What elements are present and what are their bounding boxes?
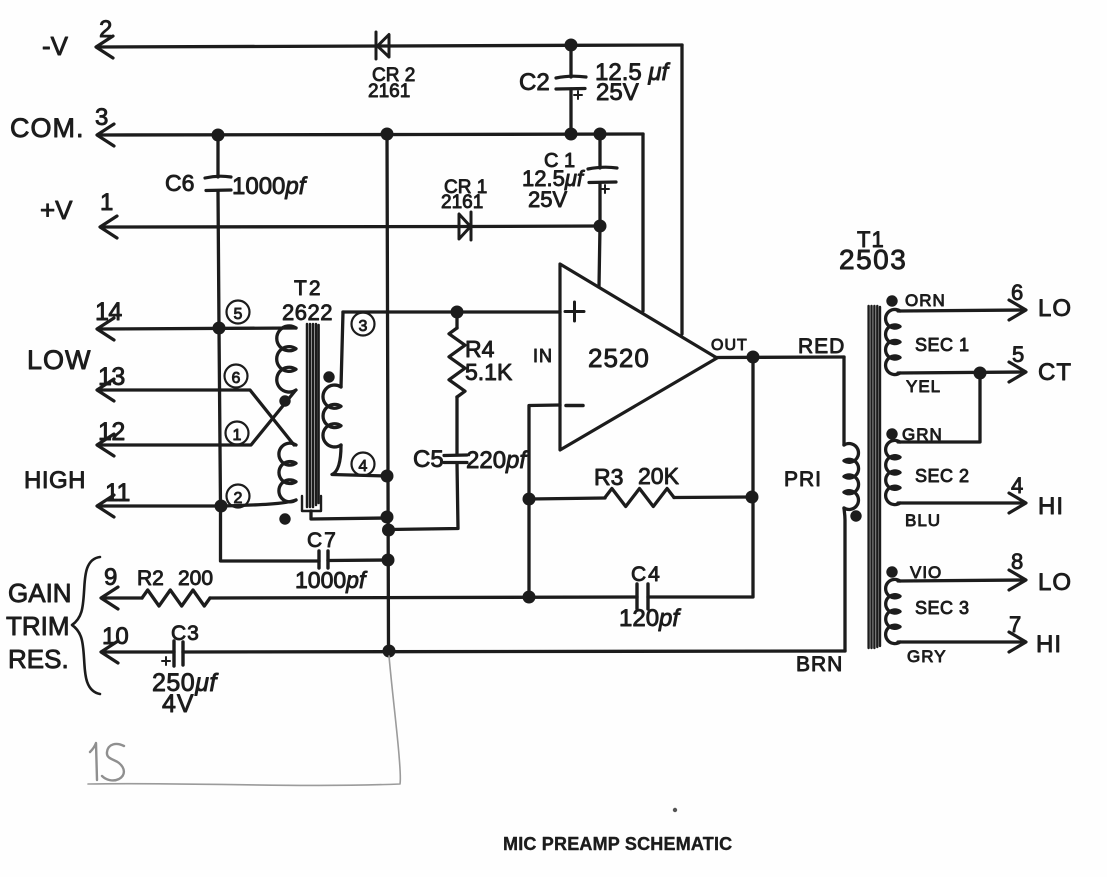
capacitor C1 lead top	[598, 134, 601, 168]
svg-text:3: 3	[95, 104, 108, 131]
svg-text:RED: RED	[798, 335, 845, 358]
svg-text:YEL: YEL	[906, 377, 941, 396]
capacitor C6 lead top	[216, 135, 219, 177]
wire C7 to main vertical	[328, 558, 388, 562]
T2 phasing dot secondary	[323, 371, 334, 382]
wire COM supply drop to op-amp	[641, 134, 644, 311]
svg-text:25V: 25V	[596, 79, 639, 106]
junction dots (solder points)	[212, 39, 987, 658]
wire lead ORN	[898, 310, 1022, 311]
svg-text:2161: 2161	[441, 192, 483, 213]
svg-text:C3: C3	[171, 622, 200, 645]
svg-text:MIC PREAMP SCHEMATIC: MIC PREAMP SCHEMATIC	[503, 834, 732, 854]
capacitor C1 lead bottom	[598, 183, 601, 226]
svg-text:10: 10	[102, 623, 129, 650]
wire BRN riser to T1 primary	[844, 508, 845, 651]
wire RED drop to T1 primary	[842, 357, 845, 445]
capacitor C4 120pf	[637, 584, 648, 609]
svg-text:4: 4	[359, 458, 368, 475]
T2 phasing dot lower	[279, 513, 290, 524]
T2 primary winding lower (pins 1-2)	[279, 443, 296, 502]
svg-text:-V: -V	[42, 31, 69, 61]
terminal arrow pin 5	[1009, 362, 1026, 382]
svg-text:GRY: GRY	[907, 647, 947, 666]
wire pin 12 crossover to T2 pin 6	[99, 391, 295, 445]
svg-text:LO: LO	[1038, 569, 1072, 596]
C1 polarity plus	[601, 185, 609, 193]
T2 terminal 6	[225, 365, 248, 388]
T2 terminal 3	[352, 313, 375, 336]
wire shield to ground bus	[311, 511, 387, 519]
resistor R3 20K	[605, 489, 674, 507]
wire R3 right lead	[674, 495, 752, 499]
wire pin 9 to R2	[103, 596, 142, 599]
wire lead GRY	[898, 640, 1022, 643]
resistor R4 lead bottom to C5	[455, 397, 458, 455]
svg-text:20K: 20K	[638, 463, 680, 489]
svg-text:4V: 4V	[162, 690, 195, 718]
svg-text:R2: R2	[137, 567, 164, 590]
wire pin 14 to T2 winding	[99, 328, 296, 329]
svg-text:1: 1	[233, 427, 242, 444]
terminal arrow pin 7	[1009, 632, 1026, 652]
wire +V rail left segment	[102, 225, 471, 229]
T1 phasing dot SEC 3	[886, 566, 897, 577]
svg-text:RES.: RES.	[8, 644, 69, 674]
svg-text:LO: LO	[1038, 295, 1072, 322]
capacitor C5 220pf	[444, 455, 467, 463]
T1 core	[869, 306, 880, 648]
svg-text:3: 3	[359, 318, 368, 335]
svg-text:IN: IN	[533, 346, 553, 366]
T1 phasing dot SEC 2	[886, 428, 897, 439]
wire R2 to C4 (gain line)	[210, 597, 637, 598]
wire C3 to BRN corner	[183, 651, 845, 652]
svg-text:1: 1	[100, 189, 113, 216]
T2 terminal 2	[227, 485, 250, 508]
terminal arrow pin 2	[96, 36, 113, 58]
wire -V supply drop to op-amp	[680, 45, 683, 334]
terminal arrow pin 6	[1009, 300, 1026, 320]
svg-text:LOW: LOW	[27, 345, 92, 375]
svg-text:1000pf: 1000pf	[295, 567, 368, 593]
wire main vertical (COM to pin10 line)	[387, 134, 389, 651]
wire C4 to output vertical	[648, 357, 753, 597]
handwritten note 15 (pencil)	[90, 743, 124, 780]
terminal arrow pin 9	[101, 587, 118, 609]
terminal arrow pin 14	[97, 318, 114, 340]
wire +V rail right segment	[471, 224, 600, 228]
wire CT tap to SEC 2	[898, 373, 980, 442]
T1 winding SEC 3	[886, 579, 900, 643]
svg-text:1000pf: 1000pf	[232, 173, 308, 200]
T2 core	[307, 324, 319, 507]
svg-text:R3: R3	[594, 464, 623, 490]
terminal arrow pin 3	[97, 124, 114, 146]
svg-text:11: 11	[105, 479, 130, 507]
capacitor C2	[556, 76, 586, 89]
svg-text:COM.: COM.	[10, 113, 85, 143]
svg-text:C6: C6	[165, 170, 194, 196]
wire lead VIO	[898, 580, 1022, 581]
wire pin 10 to C3	[103, 650, 174, 653]
svg-text:2520: 2520	[588, 343, 650, 373]
capacitor C2 lead bottom	[569, 89, 572, 134]
wire pin 11 to T2 winding	[99, 500, 296, 506]
svg-text:+V: +V	[40, 195, 73, 225]
svg-text:CT: CT	[1038, 359, 1072, 386]
svg-text:C2: C2	[519, 69, 550, 96]
svg-text:GAIN: GAIN	[8, 578, 72, 608]
svg-text:6: 6	[232, 370, 241, 387]
pencil line	[88, 656, 400, 785]
wire +V/C1 supply drop to op-amp	[599, 226, 600, 287]
wire op-amp + input	[343, 310, 560, 313]
svg-text:5: 5	[234, 306, 243, 323]
svg-text:BLU: BLU	[905, 511, 941, 530]
C2 polarity plus	[574, 91, 582, 99]
T1 primary winding PRI	[844, 443, 859, 509]
svg-text:2: 2	[234, 490, 243, 507]
T2 terminal 5	[227, 301, 250, 324]
svg-text:C4: C4	[631, 563, 662, 586]
C3 polarity plus	[162, 657, 170, 665]
svg-text:5.1K: 5.1K	[465, 359, 513, 385]
diode CR2 2161	[376, 32, 389, 59]
wire op-amp - input	[529, 405, 560, 597]
resistor R4 5.1K	[449, 328, 465, 397]
svg-text:C7: C7	[307, 529, 338, 552]
op-amp U1 2520	[560, 264, 717, 450]
svg-text:T2: T2	[294, 277, 323, 300]
stray mark	[673, 808, 677, 812]
capacitor C7 1000pf	[319, 551, 328, 568]
terminal arrow pin 1	[100, 216, 117, 238]
svg-text:200: 200	[178, 567, 213, 590]
op-amp plus input mark	[565, 302, 584, 321]
wire op-amp output	[715, 355, 844, 359]
terminal arrow pin 10	[101, 641, 118, 663]
capacitor C3	[174, 641, 183, 666]
capacitor C2 lead top	[569, 45, 572, 77]
svg-text:SEC 1: SEC 1	[915, 335, 970, 355]
T2 secondary lead bottom	[332, 445, 387, 476]
terminal arrow pin 13	[97, 379, 114, 401]
svg-text:HI: HI	[1038, 493, 1064, 520]
T2 terminal 1	[226, 422, 249, 445]
wire -V rail left segment	[98, 46, 390, 47]
diode CR1 2161	[459, 212, 471, 240]
T1 phasing dot PRI	[850, 510, 861, 521]
svg-text:HI: HI	[1036, 631, 1062, 658]
svg-text:8: 8	[1011, 549, 1023, 574]
T1 phasing dot SEC 1	[886, 295, 897, 306]
T2 secondary lead top	[341, 312, 343, 387]
wire R3 left lead	[529, 498, 605, 499]
T2 primary winding upper (pins 5-6)	[277, 326, 296, 392]
capacitor C6	[205, 176, 231, 190]
svg-text:SEC 3: SEC 3	[915, 598, 970, 618]
resistor R4 lead top	[455, 312, 458, 328]
capacitor C1	[588, 167, 617, 182]
T2 secondary winding (pins 3-4)	[323, 385, 341, 447]
svg-text:BRN: BRN	[796, 653, 843, 676]
wire C5 to main vertical	[389, 463, 458, 530]
wire COM rail	[99, 134, 643, 135]
svg-text:220pf: 220pf	[466, 447, 528, 474]
wire lead BLU	[898, 501, 1022, 504]
terminal arrow pin 12	[97, 434, 114, 456]
wire pin 13 crossover to T2 pin 1	[99, 390, 294, 445]
svg-text:SEC 2: SEC 2	[915, 466, 970, 486]
wire -V rail right segment	[389, 45, 682, 46]
svg-text:2622: 2622	[282, 300, 333, 325]
svg-text:2161: 2161	[368, 81, 410, 102]
terminal arrow pin 11	[97, 495, 114, 517]
svg-text:25V: 25V	[528, 187, 567, 212]
capacitor C6 lead bottom / vertical to pin11	[218, 191, 319, 561]
T1 winding SEC 2	[886, 440, 900, 504]
terminal arrow pin 8	[1009, 570, 1026, 590]
T2 terminal 4	[352, 453, 375, 476]
svg-text:TRIM: TRIM	[6, 611, 70, 641]
svg-text:PRI: PRI	[784, 468, 822, 491]
svg-text:GRN: GRN	[902, 425, 943, 444]
svg-text:ORN: ORN	[905, 291, 946, 310]
terminal arrow pin 4	[1009, 493, 1026, 513]
svg-text:2503: 2503	[839, 244, 907, 275]
brace for gain trim terminals	[72, 557, 100, 694]
svg-text:120pf: 120pf	[619, 605, 681, 632]
T1 winding SEC 1	[886, 309, 900, 374]
op-amp minus input mark	[566, 404, 583, 408]
svg-text:HIGH: HIGH	[24, 467, 86, 494]
T2 phasing dot upper	[279, 395, 290, 406]
wire lead YEL	[898, 372, 1022, 373]
T2 core shield bracket	[302, 496, 321, 511]
svg-text:C5: C5	[413, 446, 444, 473]
svg-text:OUT: OUT	[711, 337, 748, 354]
svg-text:VIO: VIO	[910, 563, 942, 582]
resistor R2	[142, 590, 210, 606]
